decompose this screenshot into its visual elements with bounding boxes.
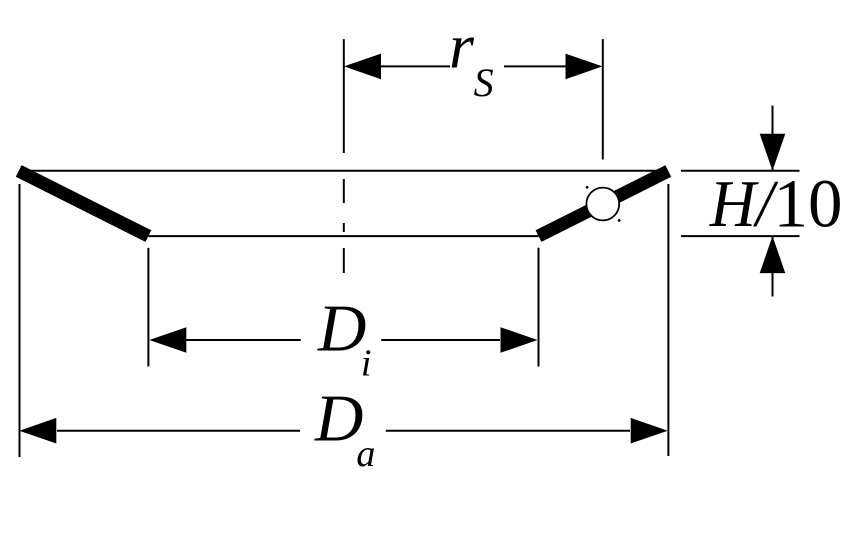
- svg-text:S: S: [474, 60, 494, 105]
- svg-text:a: a: [356, 433, 375, 475]
- svg-text:10: 10: [774, 166, 843, 242]
- svg-text:r: r: [449, 11, 475, 82]
- svg-text:H/: H/: [709, 168, 779, 242]
- svg-text:i: i: [361, 343, 372, 385]
- svg-text:D: D: [317, 292, 366, 366]
